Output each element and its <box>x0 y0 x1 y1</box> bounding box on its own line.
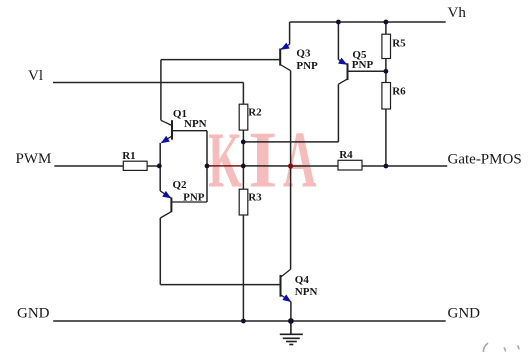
wire Vl drop to R2 <box>242 83 244 105</box>
svg-text:R3: R3 <box>248 191 262 203</box>
wire Q5 collector to R2/R3 node <box>243 141 338 143</box>
svg-text:Vl: Vl <box>28 68 43 84</box>
wire node to Q2 emitter <box>159 166 161 191</box>
transistor Q1 <box>161 108 207 143</box>
svg-text:R1: R1 <box>122 150 135 162</box>
wire Q3 emitter to Vh <box>289 22 291 44</box>
resistor R3 <box>239 189 262 215</box>
wire Q5 collector drop <box>337 84 339 142</box>
wire Q5 emitter to Vh <box>337 22 339 60</box>
svg-text:GND: GND <box>17 305 50 321</box>
svg-text:R2: R2 <box>248 106 262 118</box>
wire R6 to output line <box>385 109 387 166</box>
wire Q1 emitter to node <box>159 143 161 166</box>
wire Q2 collector to Q4 base <box>160 284 280 286</box>
junction base node <box>205 164 210 169</box>
transistor Q5 <box>338 49 373 84</box>
faint corner marks <box>483 343 518 352</box>
svg-text:Q4: Q4 <box>295 274 310 286</box>
svg-text:NPN: NPN <box>295 286 318 298</box>
junction Vh / R5 <box>384 20 389 25</box>
junction output node (red) <box>288 163 293 168</box>
transistor Q3 <box>280 43 318 72</box>
svg-text:R4: R4 <box>339 149 353 161</box>
wire Vl rail <box>53 82 243 84</box>
wire Vh rail <box>290 21 446 23</box>
junction R2/R3 center node <box>241 164 246 169</box>
svg-text:PNP: PNP <box>352 59 374 71</box>
wire R2 to R3 <box>242 130 244 189</box>
junction R6 / R4 output <box>384 164 389 169</box>
wire R2/R3 node to output node <box>243 165 290 167</box>
wire R4 to R6 node <box>362 165 386 167</box>
wire Q5 base to R5/R6 node <box>348 70 386 72</box>
ground <box>280 321 303 345</box>
resistor R6 <box>382 83 406 110</box>
wire R6 node to Gate-PMOS <box>386 165 447 167</box>
wire output node to R4 <box>291 165 338 167</box>
wire Q4 emitter to GND <box>290 302 292 321</box>
watermark KIA <box>208 115 316 205</box>
wire GND rail <box>53 320 446 322</box>
transistor Q4 <box>281 269 318 302</box>
transistor Q2 <box>160 179 207 218</box>
junction R5/R6 divider node <box>384 69 389 74</box>
wire Vh to R5 <box>385 22 387 34</box>
svg-text:Q2: Q2 <box>173 179 188 191</box>
wire base node to R2/R3 node (red tint under watermark) <box>207 165 243 167</box>
svg-text:PWM: PWM <box>16 151 52 167</box>
svg-text:Vh: Vh <box>448 5 467 21</box>
svg-text:R5: R5 <box>392 37 406 49</box>
resistor R2 <box>239 104 262 130</box>
wire Q2 collector drop <box>159 218 161 285</box>
junction PWM emitter node <box>157 164 162 169</box>
svg-text:A: A <box>283 117 317 205</box>
resistor R5 <box>382 34 406 58</box>
resistor R4 <box>338 149 362 170</box>
svg-text:PNP: PNP <box>183 192 205 204</box>
wire R5 to R6 <box>385 59 387 83</box>
junction Vh / Q5 emitter <box>336 20 341 25</box>
junction R3 / GND <box>241 319 246 324</box>
wire Q3 collector to Q4 collector <box>290 71 292 270</box>
svg-text:Q3: Q3 <box>296 48 311 60</box>
svg-text:NPN: NPN <box>184 118 207 130</box>
wire R1 to emitter node <box>147 165 159 167</box>
wire Q1 collector riser <box>160 60 162 121</box>
wire Q1 collector to Q3 base <box>161 59 280 61</box>
svg-text:PNP: PNP <box>296 60 318 72</box>
svg-text:R6: R6 <box>392 86 406 98</box>
wire R3 to GND rail <box>242 215 244 321</box>
svg-text:K: K <box>208 116 242 204</box>
junction Q4 emitter / GND <box>288 318 294 324</box>
junction R2 bottom / Q5 collector <box>241 140 246 145</box>
svg-text:Gate-PMOS: Gate-PMOS <box>448 152 522 168</box>
wire Q1 base drop to Q2 base <box>206 131 208 202</box>
wire PWM input to R1 <box>54 165 123 167</box>
resistor R1 <box>122 150 147 170</box>
svg-text:GND: GND <box>448 306 481 322</box>
